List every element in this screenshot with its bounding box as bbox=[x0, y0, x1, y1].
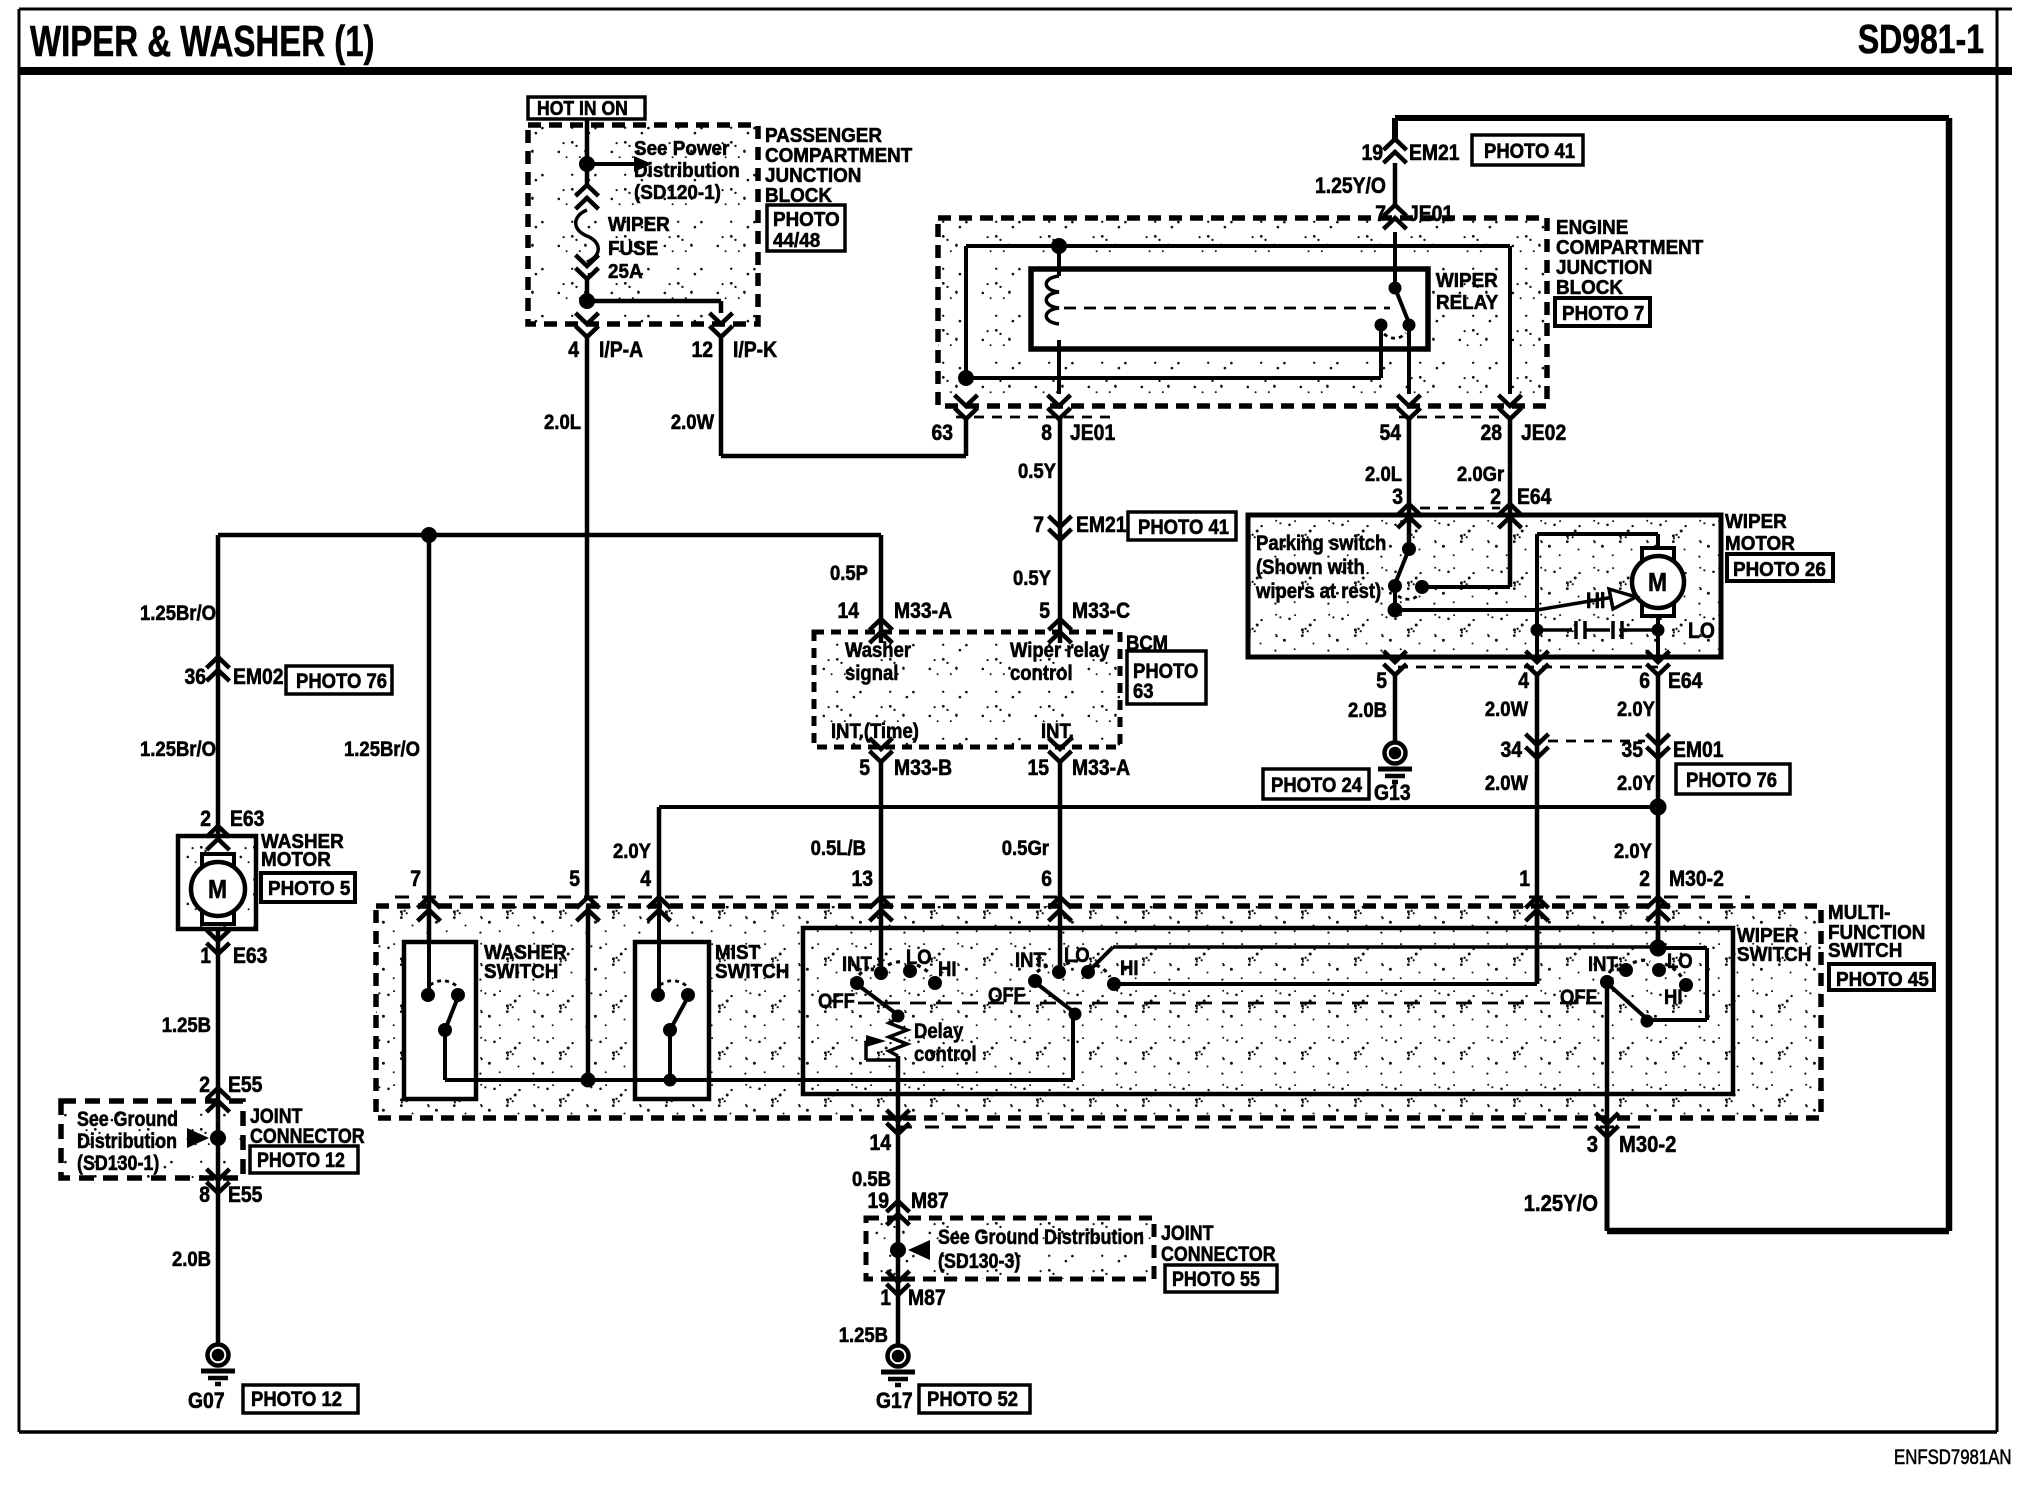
connector 19 EM21 bbox=[1392, 118, 1398, 140]
connector 1 M87 bbox=[887, 1284, 910, 1295]
svg-text:14: 14 bbox=[837, 599, 859, 623]
svg-text:0.5Gr: 0.5Gr bbox=[1002, 837, 1050, 860]
svg-text:Washer: Washer bbox=[845, 639, 911, 662]
svg-text:EM21: EM21 bbox=[1076, 513, 1127, 537]
svg-text:RELAY: RELAY bbox=[1436, 291, 1498, 314]
svg-text:8: 8 bbox=[1041, 421, 1052, 445]
label PHOTO 76 right bbox=[1676, 764, 1790, 794]
svg-text:1: 1 bbox=[880, 1286, 891, 1310]
wire 1.25B left bbox=[216, 929, 221, 1345]
connector 1 E63 bbox=[207, 943, 230, 954]
svg-text:M: M bbox=[1648, 569, 1667, 598]
svg-text:1.25B: 1.25B bbox=[839, 1324, 888, 1347]
wire 0.5Y / 0.5Gr bbox=[1058, 419, 1063, 643]
wire from HOT IN ON bbox=[585, 119, 590, 186]
connector 2 E55 bbox=[207, 1088, 230, 1099]
svg-text:(Shown with: (Shown with bbox=[1256, 556, 1365, 579]
svg-text:See Ground: See Ground bbox=[77, 1108, 178, 1132]
label PHOTO 52 bbox=[919, 1385, 1030, 1413]
connector 63 bbox=[955, 408, 978, 419]
svg-text:7: 7 bbox=[1033, 513, 1044, 537]
connector 4 I/P-A bbox=[576, 326, 599, 337]
wire 2.0B right bbox=[1393, 675, 1398, 743]
svg-text:19: 19 bbox=[867, 1189, 889, 1213]
connector 14 M30-2 bbox=[887, 1123, 910, 1134]
wire pin 3 bbox=[1605, 982, 1610, 1137]
svg-text:28: 28 bbox=[1480, 421, 1502, 445]
node relay bus bbox=[1051, 238, 1067, 254]
svg-text:4: 4 bbox=[640, 867, 651, 891]
wire relay bus bbox=[966, 244, 1510, 248]
svg-text:E63: E63 bbox=[233, 944, 267, 968]
wiper switch wafer B bbox=[1058, 906, 1062, 972]
svg-text:35: 35 bbox=[1621, 738, 1643, 762]
wire relay output bbox=[1407, 325, 1411, 394]
wire 2.0W bbox=[1535, 675, 1540, 984]
svg-text:E64: E64 bbox=[1668, 669, 1703, 693]
svg-text:signal: signal bbox=[845, 662, 898, 685]
svg-text:M33-C: M33-C bbox=[1072, 599, 1130, 623]
arrow see power distribution bbox=[587, 162, 636, 166]
connector 5 M33-B bbox=[870, 751, 893, 762]
svg-text:1.25Y/O: 1.25Y/O bbox=[1524, 1190, 1598, 1217]
node washer switch tap bbox=[421, 527, 437, 543]
svg-text:E63: E63 bbox=[230, 807, 264, 831]
svg-text:5: 5 bbox=[1376, 669, 1387, 693]
relay switch bbox=[1393, 232, 1397, 286]
connector 14 M33-A bbox=[870, 619, 893, 630]
capacitors bbox=[1531, 624, 1544, 637]
connector pin 2 M30-2 bbox=[1647, 897, 1670, 908]
ground G07 bbox=[208, 1345, 229, 1366]
svg-text:2.0B: 2.0B bbox=[172, 1248, 211, 1271]
connector 34 EM01 bbox=[1526, 747, 1549, 758]
svg-text:M87: M87 bbox=[908, 1286, 946, 1310]
svg-text:2.0W: 2.0W bbox=[1485, 698, 1528, 721]
wire 2.0Y bbox=[1656, 675, 1661, 948]
svg-text:I/P-A: I/P-A bbox=[599, 338, 643, 362]
svg-text:E64: E64 bbox=[1517, 485, 1552, 509]
svg-text:14: 14 bbox=[869, 1131, 891, 1155]
ground G17 bbox=[888, 1346, 909, 1367]
svg-text:LO: LO bbox=[1064, 944, 1090, 967]
svg-text:0.5B: 0.5B bbox=[852, 1168, 891, 1191]
delay control resistor bbox=[889, 1018, 907, 1056]
wire 1.25Br/O left bbox=[216, 535, 221, 836]
svg-text:PHOTO 12: PHOTO 12 bbox=[257, 1149, 345, 1173]
label PHOTO 44/48 bbox=[767, 205, 845, 251]
connector 35 EM01 bbox=[1647, 747, 1670, 758]
svg-text:INT.: INT. bbox=[1015, 949, 1048, 972]
svg-text:54: 54 bbox=[1379, 421, 1401, 445]
svg-text:2.0W: 2.0W bbox=[671, 411, 714, 434]
parking switch bbox=[1402, 542, 1416, 556]
label PHOTO 5 bbox=[261, 873, 355, 902]
svg-text:M33-B: M33-B bbox=[894, 756, 952, 780]
svg-text:G07: G07 bbox=[188, 1389, 225, 1413]
connector 2 E63 bbox=[207, 826, 230, 837]
svg-text:44/48: 44/48 bbox=[773, 229, 820, 252]
connector 4 E64 bbox=[1526, 664, 1549, 675]
svg-text:Distribution: Distribution bbox=[77, 1130, 177, 1154]
connector pin 4 bbox=[648, 897, 671, 908]
svg-text:15: 15 bbox=[1027, 756, 1049, 780]
node rail pin5 bbox=[581, 1073, 596, 1088]
svg-text:0.5Y: 0.5Y bbox=[1018, 460, 1056, 483]
svg-text:0.5L/B: 0.5L/B bbox=[811, 837, 866, 860]
connector pin 13 bbox=[870, 897, 893, 908]
wiper fuse 25A bbox=[576, 185, 599, 196]
node wafer B blade bbox=[1069, 1008, 1082, 1021]
connector 8 JE01 bbox=[1048, 408, 1071, 419]
svg-text:13: 13 bbox=[851, 867, 873, 891]
joint connector M87 bbox=[866, 1218, 1154, 1279]
svg-text:JE02: JE02 bbox=[1521, 421, 1566, 445]
label PHOTO 41 mid bbox=[1128, 512, 1236, 540]
wiper motor bbox=[1642, 548, 1674, 560]
svg-text:0.5Y: 0.5Y bbox=[1013, 567, 1051, 590]
relay linkage dashed bbox=[1064, 307, 1390, 310]
connector 5 E64 bbox=[1384, 664, 1407, 675]
svg-text:PHOTO 7: PHOTO 7 bbox=[1562, 302, 1644, 325]
connector 36 EM02 bbox=[207, 657, 230, 668]
connector line M30-2 top bbox=[395, 896, 1750, 899]
wiper switch wafer C bbox=[1656, 906, 1661, 948]
svg-text:63: 63 bbox=[931, 421, 953, 445]
svg-text:6: 6 bbox=[1041, 867, 1052, 891]
svg-text:See Power: See Power bbox=[634, 137, 730, 160]
svg-text:5: 5 bbox=[569, 867, 580, 891]
svg-text:HI: HI bbox=[938, 958, 956, 981]
svg-text:34: 34 bbox=[1500, 738, 1522, 762]
connector pin 5 bbox=[577, 897, 600, 908]
connector 7 JE01 top bbox=[1393, 163, 1398, 205]
label PHOTO 63 bbox=[1127, 651, 1206, 704]
svg-text:HI: HI bbox=[1120, 957, 1138, 980]
washer motor bbox=[178, 836, 256, 929]
label PHOTO 41 top bbox=[1472, 135, 1583, 165]
svg-text:JE01: JE01 bbox=[1408, 202, 1453, 226]
svg-text:INT.: INT. bbox=[842, 953, 875, 976]
svg-text:EM21: EM21 bbox=[1409, 141, 1460, 165]
connector 12 I/P-K bbox=[710, 326, 733, 337]
connector 28 JE02 bbox=[1499, 408, 1522, 419]
label PHOTO 76 left bbox=[286, 666, 392, 694]
svg-text:PHOTO 5: PHOTO 5 bbox=[268, 877, 350, 900]
svg-text:E55: E55 bbox=[228, 1183, 262, 1207]
page frame bbox=[19, 8, 2012, 11]
svg-text:CONNECTOR: CONNECTOR bbox=[1161, 1243, 1276, 1267]
svg-text:2.0Y: 2.0Y bbox=[1614, 840, 1652, 863]
wiper switch box bbox=[803, 928, 1733, 1094]
svg-text:63: 63 bbox=[1133, 680, 1154, 703]
svg-text:PHOTO 55: PHOTO 55 bbox=[1172, 1268, 1260, 1292]
svg-text:SWITCH: SWITCH bbox=[1828, 939, 1902, 962]
svg-text:WIPER: WIPER bbox=[1725, 510, 1787, 533]
label PHOTO 26 bbox=[1727, 554, 1833, 581]
svg-text:1: 1 bbox=[200, 944, 211, 968]
connector 15 M33-A bbox=[1049, 751, 1072, 762]
ground G13 bbox=[1385, 743, 1406, 764]
passenger compartment junction block bbox=[528, 125, 758, 324]
svg-text:1: 1 bbox=[1519, 867, 1530, 891]
svg-text:1.25B: 1.25B bbox=[162, 1014, 211, 1037]
svg-text:BLOCK: BLOCK bbox=[1556, 276, 1624, 299]
svg-text:HI: HI bbox=[1664, 986, 1682, 1009]
svg-text:5: 5 bbox=[1039, 599, 1050, 623]
svg-text:SWITCH: SWITCH bbox=[484, 960, 558, 983]
svg-text:4: 4 bbox=[568, 338, 579, 362]
svg-text:36: 36 bbox=[184, 665, 206, 689]
wiper switch wafer A bbox=[879, 906, 883, 973]
svg-text:SD981-1: SD981-1 bbox=[1858, 16, 1984, 62]
svg-text:6: 6 bbox=[1639, 669, 1650, 693]
svg-text:M30-2: M30-2 bbox=[1619, 1131, 1676, 1158]
svg-text:Distribution: Distribution bbox=[634, 159, 740, 182]
node parking common bbox=[1388, 603, 1403, 618]
svg-text:E55: E55 bbox=[228, 1073, 262, 1097]
washer switch bbox=[404, 942, 476, 1099]
wire 0.5P / 0.5L/B bbox=[879, 535, 884, 643]
svg-text:(SD130-3): (SD130-3) bbox=[938, 1250, 1020, 1274]
label PHOTO 12 ground bbox=[243, 1385, 358, 1413]
svg-text:1.25Y/O: 1.25Y/O bbox=[1315, 174, 1386, 198]
connector pin 7 bbox=[418, 897, 441, 908]
svg-text:LO: LO bbox=[1667, 950, 1693, 973]
svg-text:PHOTO 76: PHOTO 76 bbox=[296, 670, 387, 693]
HI brush bbox=[1537, 597, 1614, 610]
svg-text:G17: G17 bbox=[876, 1389, 913, 1413]
svg-text:M33-A: M33-A bbox=[1072, 756, 1130, 780]
svg-text:PHOTO 76: PHOTO 76 bbox=[1686, 769, 1777, 792]
svg-text:WIPER: WIPER bbox=[608, 213, 670, 236]
svg-text:PHOTO 12: PHOTO 12 bbox=[251, 1388, 342, 1411]
label PHOTO 12 joint bbox=[250, 1146, 358, 1173]
wire switch common rail bbox=[445, 1078, 1073, 1082]
svg-text:7: 7 bbox=[410, 867, 421, 891]
node wafer C blade bbox=[1641, 1015, 1654, 1028]
svg-text:2.0Y: 2.0Y bbox=[1617, 772, 1655, 795]
svg-text:1.25Br/O: 1.25Br/O bbox=[140, 602, 216, 625]
node 2.0Y junction bbox=[1650, 799, 1667, 816]
svg-text:HI: HI bbox=[1586, 589, 1605, 613]
svg-text:OFF: OFF bbox=[818, 990, 855, 1013]
svg-text:2: 2 bbox=[1639, 867, 1650, 891]
svg-text:4: 4 bbox=[1518, 669, 1529, 693]
svg-text:PHOTO 41: PHOTO 41 bbox=[1484, 140, 1575, 163]
svg-text:PHOTO: PHOTO bbox=[773, 208, 840, 231]
svg-text:1.25Br/O: 1.25Br/O bbox=[344, 738, 420, 761]
joint connector E55 bbox=[61, 1101, 243, 1178]
svg-text:2.0W: 2.0W bbox=[1485, 772, 1528, 795]
wire wafer B LO to pin 2 bbox=[1090, 947, 1113, 970]
svg-text:1.25Br/O: 1.25Br/O bbox=[140, 738, 216, 761]
svg-text:12: 12 bbox=[691, 338, 713, 362]
svg-text:3: 3 bbox=[1587, 1131, 1598, 1158]
node power tap bbox=[579, 156, 595, 172]
svg-text:19: 19 bbox=[1361, 141, 1383, 165]
wire 2.0W bbox=[719, 337, 724, 456]
label PHOTO 55 bbox=[1165, 1265, 1277, 1292]
svg-text:M33-A: M33-A bbox=[894, 599, 952, 623]
mist switch bbox=[635, 942, 709, 1099]
svg-text:2.0Y: 2.0Y bbox=[613, 840, 651, 863]
svg-text:M30-2: M30-2 bbox=[1669, 867, 1724, 891]
svg-text:WIPER & WASHER (1): WIPER & WASHER (1) bbox=[30, 18, 375, 67]
engine compartment junction block bbox=[938, 218, 1547, 406]
relay coil bbox=[1057, 246, 1061, 276]
node mist bottom bbox=[664, 1074, 677, 1087]
svg-text:PHOTO 24: PHOTO 24 bbox=[1271, 774, 1362, 797]
svg-text:EM01: EM01 bbox=[1673, 738, 1724, 762]
linkage dashed bbox=[858, 1002, 1612, 1005]
svg-text:7: 7 bbox=[1375, 202, 1386, 226]
wire 2.0Y crossover bbox=[659, 805, 1658, 809]
svg-text:MOTOR: MOTOR bbox=[1725, 532, 1795, 555]
connector line M30-2 bottom bbox=[898, 1126, 1640, 1129]
svg-text:INT.(Time): INT.(Time) bbox=[831, 720, 919, 743]
connector pin 1 bbox=[1526, 897, 1549, 908]
label PHOTO 24 bbox=[1263, 769, 1369, 799]
svg-text:8: 8 bbox=[199, 1183, 210, 1207]
svg-text:2.0Y: 2.0Y bbox=[1617, 698, 1655, 721]
svg-text:2: 2 bbox=[200, 807, 211, 831]
svg-text:control: control bbox=[914, 1043, 977, 1066]
wire wafer B HI to pin 1 bbox=[1116, 982, 1537, 986]
svg-text:PHOTO 52: PHOTO 52 bbox=[927, 1388, 1018, 1411]
connector 3 E64 bbox=[1407, 419, 1412, 549]
wire fuse output bbox=[585, 279, 590, 301]
svg-text:SWITCH: SWITCH bbox=[1737, 943, 1811, 966]
connector pin 6 bbox=[1049, 897, 1072, 908]
svg-text:Parking switch: Parking switch bbox=[1256, 532, 1386, 555]
connector 3 M30-2 bbox=[1596, 1126, 1619, 1137]
svg-text:2.0Gr: 2.0Gr bbox=[1457, 463, 1505, 486]
svg-text:PHOTO 45: PHOTO 45 bbox=[1836, 968, 1929, 991]
svg-text:2: 2 bbox=[199, 1073, 210, 1097]
svg-text:2.0L: 2.0L bbox=[1365, 463, 1402, 486]
svg-text:OFF: OFF bbox=[1560, 986, 1597, 1009]
svg-text:control: control bbox=[1010, 662, 1073, 685]
svg-text:3: 3 bbox=[1392, 485, 1403, 509]
svg-text:2.0B: 2.0B bbox=[1348, 699, 1387, 722]
svg-text:M: M bbox=[208, 876, 227, 905]
svg-text:MOTOR: MOTOR bbox=[261, 848, 331, 871]
wire pin 28 bbox=[1508, 246, 1512, 394]
svg-text:M87: M87 bbox=[911, 1189, 949, 1213]
svg-text:LO: LO bbox=[1688, 619, 1715, 643]
svg-text:2.0L: 2.0L bbox=[544, 411, 581, 434]
svg-text:(SD120-1): (SD120-1) bbox=[634, 181, 721, 204]
svg-text:HOT IN ON: HOT IN ON bbox=[537, 97, 628, 119]
svg-text:SWITCH: SWITCH bbox=[715, 960, 789, 983]
svg-text:wipers at rest): wipers at rest) bbox=[1255, 580, 1381, 603]
connector 2 E64 bbox=[1508, 419, 1513, 587]
svg-text:2: 2 bbox=[1490, 485, 1501, 509]
wire washer feed bbox=[218, 533, 881, 538]
svg-text:INT.: INT. bbox=[1588, 953, 1621, 976]
node relay bus left bbox=[958, 370, 974, 386]
wire 2.0L bbox=[585, 337, 590, 899]
svg-text:25A: 25A bbox=[608, 260, 643, 283]
svg-text:LO: LO bbox=[906, 946, 932, 969]
svg-text:PHOTO 41: PHOTO 41 bbox=[1138, 516, 1229, 539]
wire 1.25Br/O branch bbox=[427, 535, 432, 995]
svg-text:JE01: JE01 bbox=[1070, 421, 1115, 445]
node wafer A blade bbox=[892, 1010, 905, 1023]
svg-text:See Ground Distribution: See Ground Distribution bbox=[938, 1226, 1144, 1250]
multi-function switch box bbox=[376, 906, 1821, 1118]
connector 54 JE02 bbox=[1398, 408, 1421, 419]
wire 1.25B center bbox=[896, 1196, 901, 1345]
wire to I/P-K bbox=[587, 299, 721, 304]
svg-text:PHOTO 26: PHOTO 26 bbox=[1733, 558, 1826, 581]
svg-text:ENFSD7981AN: ENFSD7981AN bbox=[1894, 1446, 2012, 1469]
svg-text:(SD130-1): (SD130-1) bbox=[77, 1152, 159, 1176]
svg-text:EM02: EM02 bbox=[233, 665, 284, 689]
wire pin 14 bbox=[896, 1056, 901, 1196]
svg-text:G13: G13 bbox=[1374, 781, 1411, 805]
svg-text:I/P-K: I/P-K bbox=[733, 338, 777, 362]
connector 7 EM21 mid bbox=[1049, 529, 1072, 540]
wire motor loop bbox=[1535, 534, 1539, 657]
svg-text:WIPER: WIPER bbox=[1436, 269, 1498, 292]
connector 8 E55 bbox=[207, 1182, 230, 1193]
connector 19 M87 bbox=[887, 1201, 910, 1212]
svg-text:FUSE: FUSE bbox=[608, 237, 658, 260]
node fuse output bbox=[579, 293, 595, 309]
svg-text:0.5P: 0.5P bbox=[830, 562, 868, 585]
label PHOTO 7 bbox=[1555, 298, 1650, 326]
wiper motor block bbox=[1248, 515, 1721, 657]
svg-text:Delay: Delay bbox=[914, 1020, 963, 1043]
BCM bbox=[814, 632, 1120, 747]
connector 6 E64 bbox=[1647, 664, 1670, 675]
wiper relay bbox=[1031, 269, 1428, 349]
wire 1.25Y/O loop right bbox=[1395, 115, 1949, 121]
svg-text:5: 5 bbox=[859, 756, 870, 780]
node pin 2 junction bbox=[1650, 940, 1667, 957]
connector 5 M33-C bbox=[1049, 619, 1072, 630]
wire relay NC to bus bbox=[1379, 325, 1383, 378]
label HOT IN ON bbox=[528, 97, 645, 119]
label PHOTO 45 bbox=[1829, 964, 1934, 990]
